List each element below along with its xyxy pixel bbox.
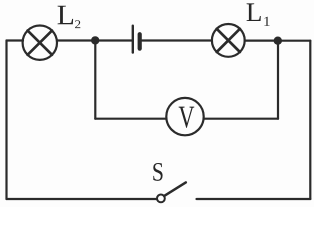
wire: node A to battery <box>95 39 131 41</box>
lamp L1 <box>212 24 245 57</box>
label V (voltmeter face) <box>179 107 195 128</box>
wire: bottom-right segment from switch gap to right rail <box>197 198 311 200</box>
switch S <box>157 182 186 202</box>
label L1 <box>247 3 270 25</box>
wire: lamp L1 to node B <box>245 39 278 41</box>
wire: node B riser down to voltmeter branch <box>277 41 279 119</box>
node B (junction dot) <box>274 37 282 45</box>
label S <box>153 163 162 181</box>
wire: bottom-left segment to switch <box>7 198 157 200</box>
wire: top-left horizontal segment from left rail to lamp L2 <box>7 39 24 41</box>
battery cell <box>133 26 140 53</box>
label L2 <box>58 6 81 28</box>
lamp L2 <box>23 26 57 60</box>
wire: right rail (vertical) <box>309 41 311 199</box>
wire: voltmeter branch right horizontal <box>204 118 278 120</box>
wire: node B to top-right corner <box>278 40 311 42</box>
voltmeter U1 <box>166 98 203 135</box>
wire: voltmeter branch left horizontal <box>95 118 166 120</box>
node A (junction dot) <box>91 36 99 44</box>
wire: node A riser down to voltmeter branch <box>94 41 96 119</box>
wire: left rail (vertical) <box>5 41 7 200</box>
wire: lamp L2 to node A <box>57 39 95 41</box>
wire: battery to lamp L1 <box>142 39 212 41</box>
